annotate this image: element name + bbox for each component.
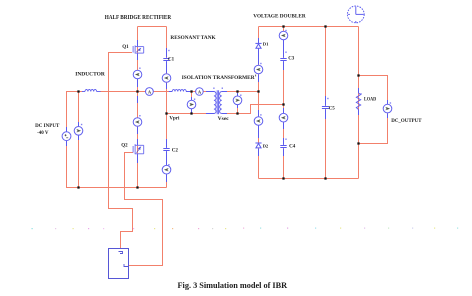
wire doubler bottom rail [259,178,359,180]
wire Q2 gate drive path [125,153,163,266]
svg-text:Fig. 3 Simulation model of IBR: Fig. 3 Simulation model of IBR [178,281,288,290]
svg-text:RESONANT TANK: RESONANT TANK [170,35,216,41]
clock symbol [347,6,364,23]
wire doubler center leg [283,27,285,179]
svg-text:VOLTAGE DOUBLER: VOLTAGE DOUBLER [253,13,305,19]
svg-text:C2: C2 [172,149,179,154]
wire half-bridge leg [137,27,139,188]
probe D2 [254,117,263,126]
svg-text:D2: D2 [263,144,269,149]
svg-text:C4: C4 [289,145,296,150]
svg-text:C3: C3 [288,57,295,62]
wire left source vertical [66,92,68,188]
faint artifact dotted row [32,228,33,229]
wire doubler top rail [259,26,359,28]
probe C3 [279,31,288,40]
wire secondary bottom [222,113,251,115]
gate driver box [109,249,129,279]
probe Q1 source [133,70,142,79]
mosfet Q1 [132,46,134,53]
svg-text:Vpri: Vpri [169,117,180,122]
svg-text:C1: C1 [168,58,175,63]
svg-text:HALF BRIDGE RECTIFIER: HALF BRIDGE RECTIFIER [105,15,172,21]
source V1 [62,132,71,141]
inductor resonant [172,90,186,92]
svg-text:DC_OUTPUT: DC_OUTPUT [391,119,422,124]
wire primary bottom [167,113,215,115]
probe C4 [279,113,288,122]
svg-text:LOAD: LOAD [364,98,377,103]
capacitor C5 [322,106,330,109]
svg-text:ISOLATION TRANSFORMER: ISOLATION TRANSFORMER [182,75,255,81]
mosfet Q2 [132,146,134,153]
ammeter A2 [196,88,204,96]
ammeter A1 [146,88,154,96]
svg-text:D1: D1 [263,42,269,47]
probe input voltage [74,127,83,136]
svg-text:C5: C5 [329,106,336,111]
probe Q2 drain [133,118,142,127]
probe Vpri [187,100,196,109]
component lead overdraws [67,38,388,182]
wire input probe vertical [78,92,80,188]
probe Vsec [233,96,242,105]
wire Vsec branch [237,92,239,114]
svg-text:DC INPUT: DC INPUT [35,124,60,129]
diode D2 [255,142,261,144]
wire output branch [359,76,388,144]
svg-text:Q2: Q2 [121,144,128,149]
inductor input [82,90,101,92]
junction dots [77,90,79,92]
svg-text:Q1: Q1 [122,45,129,50]
probe C2 [162,165,171,174]
capacitor C3 [280,58,287,61]
wire secondary top [222,91,259,93]
probe C1 [162,74,171,83]
probe DC output [383,104,392,113]
wire doubler left leg [258,27,260,179]
wire Vpri branch [191,92,193,114]
wire C5 leg [325,27,327,179]
wire Q1 gate drive path [109,53,133,249]
wire secondary jog [251,105,284,115]
svg-text:-40 V: -40 V [37,131,49,136]
label ISOLATION TRANSFORMER [254,75,257,77]
svg-text:INDUCTOR: INDUCTOR [75,72,106,78]
transformer T1 [214,90,222,114]
wire bottom return [66,187,167,189]
pin marker dots [81,124,82,125]
wire input bus y=91.5 [66,91,83,93]
capacitor C1 [163,58,170,61]
capacitor C2 [163,148,170,151]
wire load leg [358,27,360,179]
diode D1 [255,42,261,44]
wire half-bridge top [138,26,167,28]
svg-text:Vsec: Vsec [218,117,230,122]
probe D1 [254,65,263,74]
capacitor C4 [280,145,287,148]
wire resonant leg [166,27,168,188]
load resistor [356,93,360,109]
